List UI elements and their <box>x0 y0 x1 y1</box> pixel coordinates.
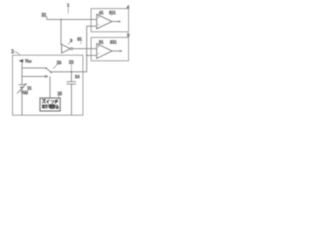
svg-text:22: 22 <box>69 60 74 65</box>
capacitor 24 <box>67 72 77 115</box>
node S1 <box>77 36 82 44</box>
box comparator 5 <box>91 37 129 60</box>
label 2 <box>11 50 19 55</box>
node 22 <box>69 60 74 73</box>
svg-text:1: 1 <box>67 2 69 7</box>
svg-text:5: 5 <box>127 33 129 38</box>
label 23 <box>53 60 62 69</box>
op-amp U41 <box>97 14 112 29</box>
wire rail to switch <box>22 67 46 69</box>
text switch control line 2 (kanji) <box>42 104 58 108</box>
junction <box>60 19 62 21</box>
label 25 <box>58 91 62 98</box>
svg-text:24: 24 <box>75 74 80 79</box>
svg-text:Vcc: Vcc <box>25 59 32 64</box>
battery 21 <box>17 83 27 115</box>
wire supply bus to comparator inputs <box>52 26 96 72</box>
op-amp U51 <box>97 44 112 59</box>
svg-text:4: 4 <box>127 4 130 9</box>
svg-text:S11: S11 <box>109 10 116 15</box>
terminal 31 <box>42 14 47 20</box>
box comparator 4 <box>91 9 129 32</box>
svg-text:23: 23 <box>57 60 62 65</box>
svg-text:31: 31 <box>42 14 47 19</box>
wire input to comparator 41 plus <box>47 18 97 20</box>
wire rail down <box>21 68 23 85</box>
output arrow S11 <box>112 20 121 22</box>
svg-text:S1: S1 <box>77 36 82 41</box>
terminal Vcc <box>19 59 32 68</box>
svg-text:51: 51 <box>99 40 104 45</box>
box switch control circuit 25 <box>40 98 60 111</box>
box power supply 2 <box>13 55 83 115</box>
output arrow S21 <box>112 50 123 52</box>
svg-text:S21: S21 <box>110 40 117 45</box>
switch 23 <box>45 67 52 73</box>
text switch control line 1 (katakana) <box>42 100 58 104</box>
junction <box>86 55 88 57</box>
wire branch to comparator 51 minus <box>87 54 97 56</box>
svg-text:2: 2 <box>11 50 14 55</box>
label 3 <box>68 38 72 44</box>
wire riser to buffer 3 <box>60 19 63 44</box>
node 1 label <box>67 2 69 13</box>
control arrow to switch <box>22 75 49 78</box>
svg-text:Vdd: Vdd <box>21 90 29 95</box>
svg-text:25: 25 <box>58 91 62 96</box>
svg-text:21: 21 <box>27 85 31 90</box>
buffer U3 <box>62 44 71 53</box>
wire buffer output to comparator 51 plus <box>73 48 97 50</box>
svg-text:41: 41 <box>99 10 104 15</box>
wire control riser <box>49 76 51 98</box>
svg-text:3: 3 <box>70 38 72 43</box>
